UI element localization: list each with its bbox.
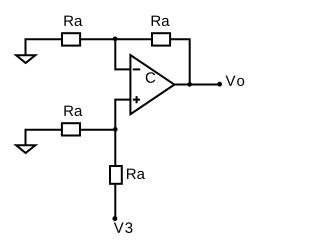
ground GND2 bbox=[16, 145, 35, 153]
label C "C" bbox=[146, 72, 156, 83]
junction dot output node bbox=[187, 82, 192, 87]
label Vo "Vo" bbox=[226, 76, 245, 86]
resistor R2 (Ra feedback) bbox=[152, 33, 170, 45]
wire bottom rail ground2 to node B bbox=[26, 130, 116, 146]
label Ra2 "Ra" bbox=[152, 16, 170, 26]
ground GND1 bbox=[16, 55, 35, 63]
label Ra1 "Ra" bbox=[64, 16, 82, 26]
wire node A down to inverting input bbox=[115, 39, 130, 69]
plus mark non-inverting input bbox=[133, 96, 140, 103]
label V3 "V3" bbox=[114, 222, 133, 233]
minus mark inverting input bbox=[133, 68, 140, 70]
resistor R3 (Ra vertical) bbox=[110, 166, 122, 184]
resistor R4 (Ra middle-left) bbox=[62, 123, 80, 135]
wire node B down through R3 to V3 terminal bbox=[114, 130, 116, 219]
label Ra4 "Ra" bbox=[64, 106, 82, 116]
terminal dot V3 bbox=[112, 216, 117, 221]
wire op-amp output to Vo terminal bbox=[174, 84, 219, 86]
junction dot node B bbox=[113, 127, 118, 132]
terminal dot Vo bbox=[217, 82, 222, 87]
resistor R1 (Ra top-left) bbox=[62, 33, 80, 45]
label Ra3 "Ra" bbox=[127, 169, 145, 179]
wire top rail ground1 to feedback corner bbox=[26, 39, 190, 84]
op-amp U1 body bbox=[130, 55, 174, 114]
wire non-inverting input to node B bbox=[115, 100, 130, 130]
junction dot node A bbox=[113, 37, 118, 42]
